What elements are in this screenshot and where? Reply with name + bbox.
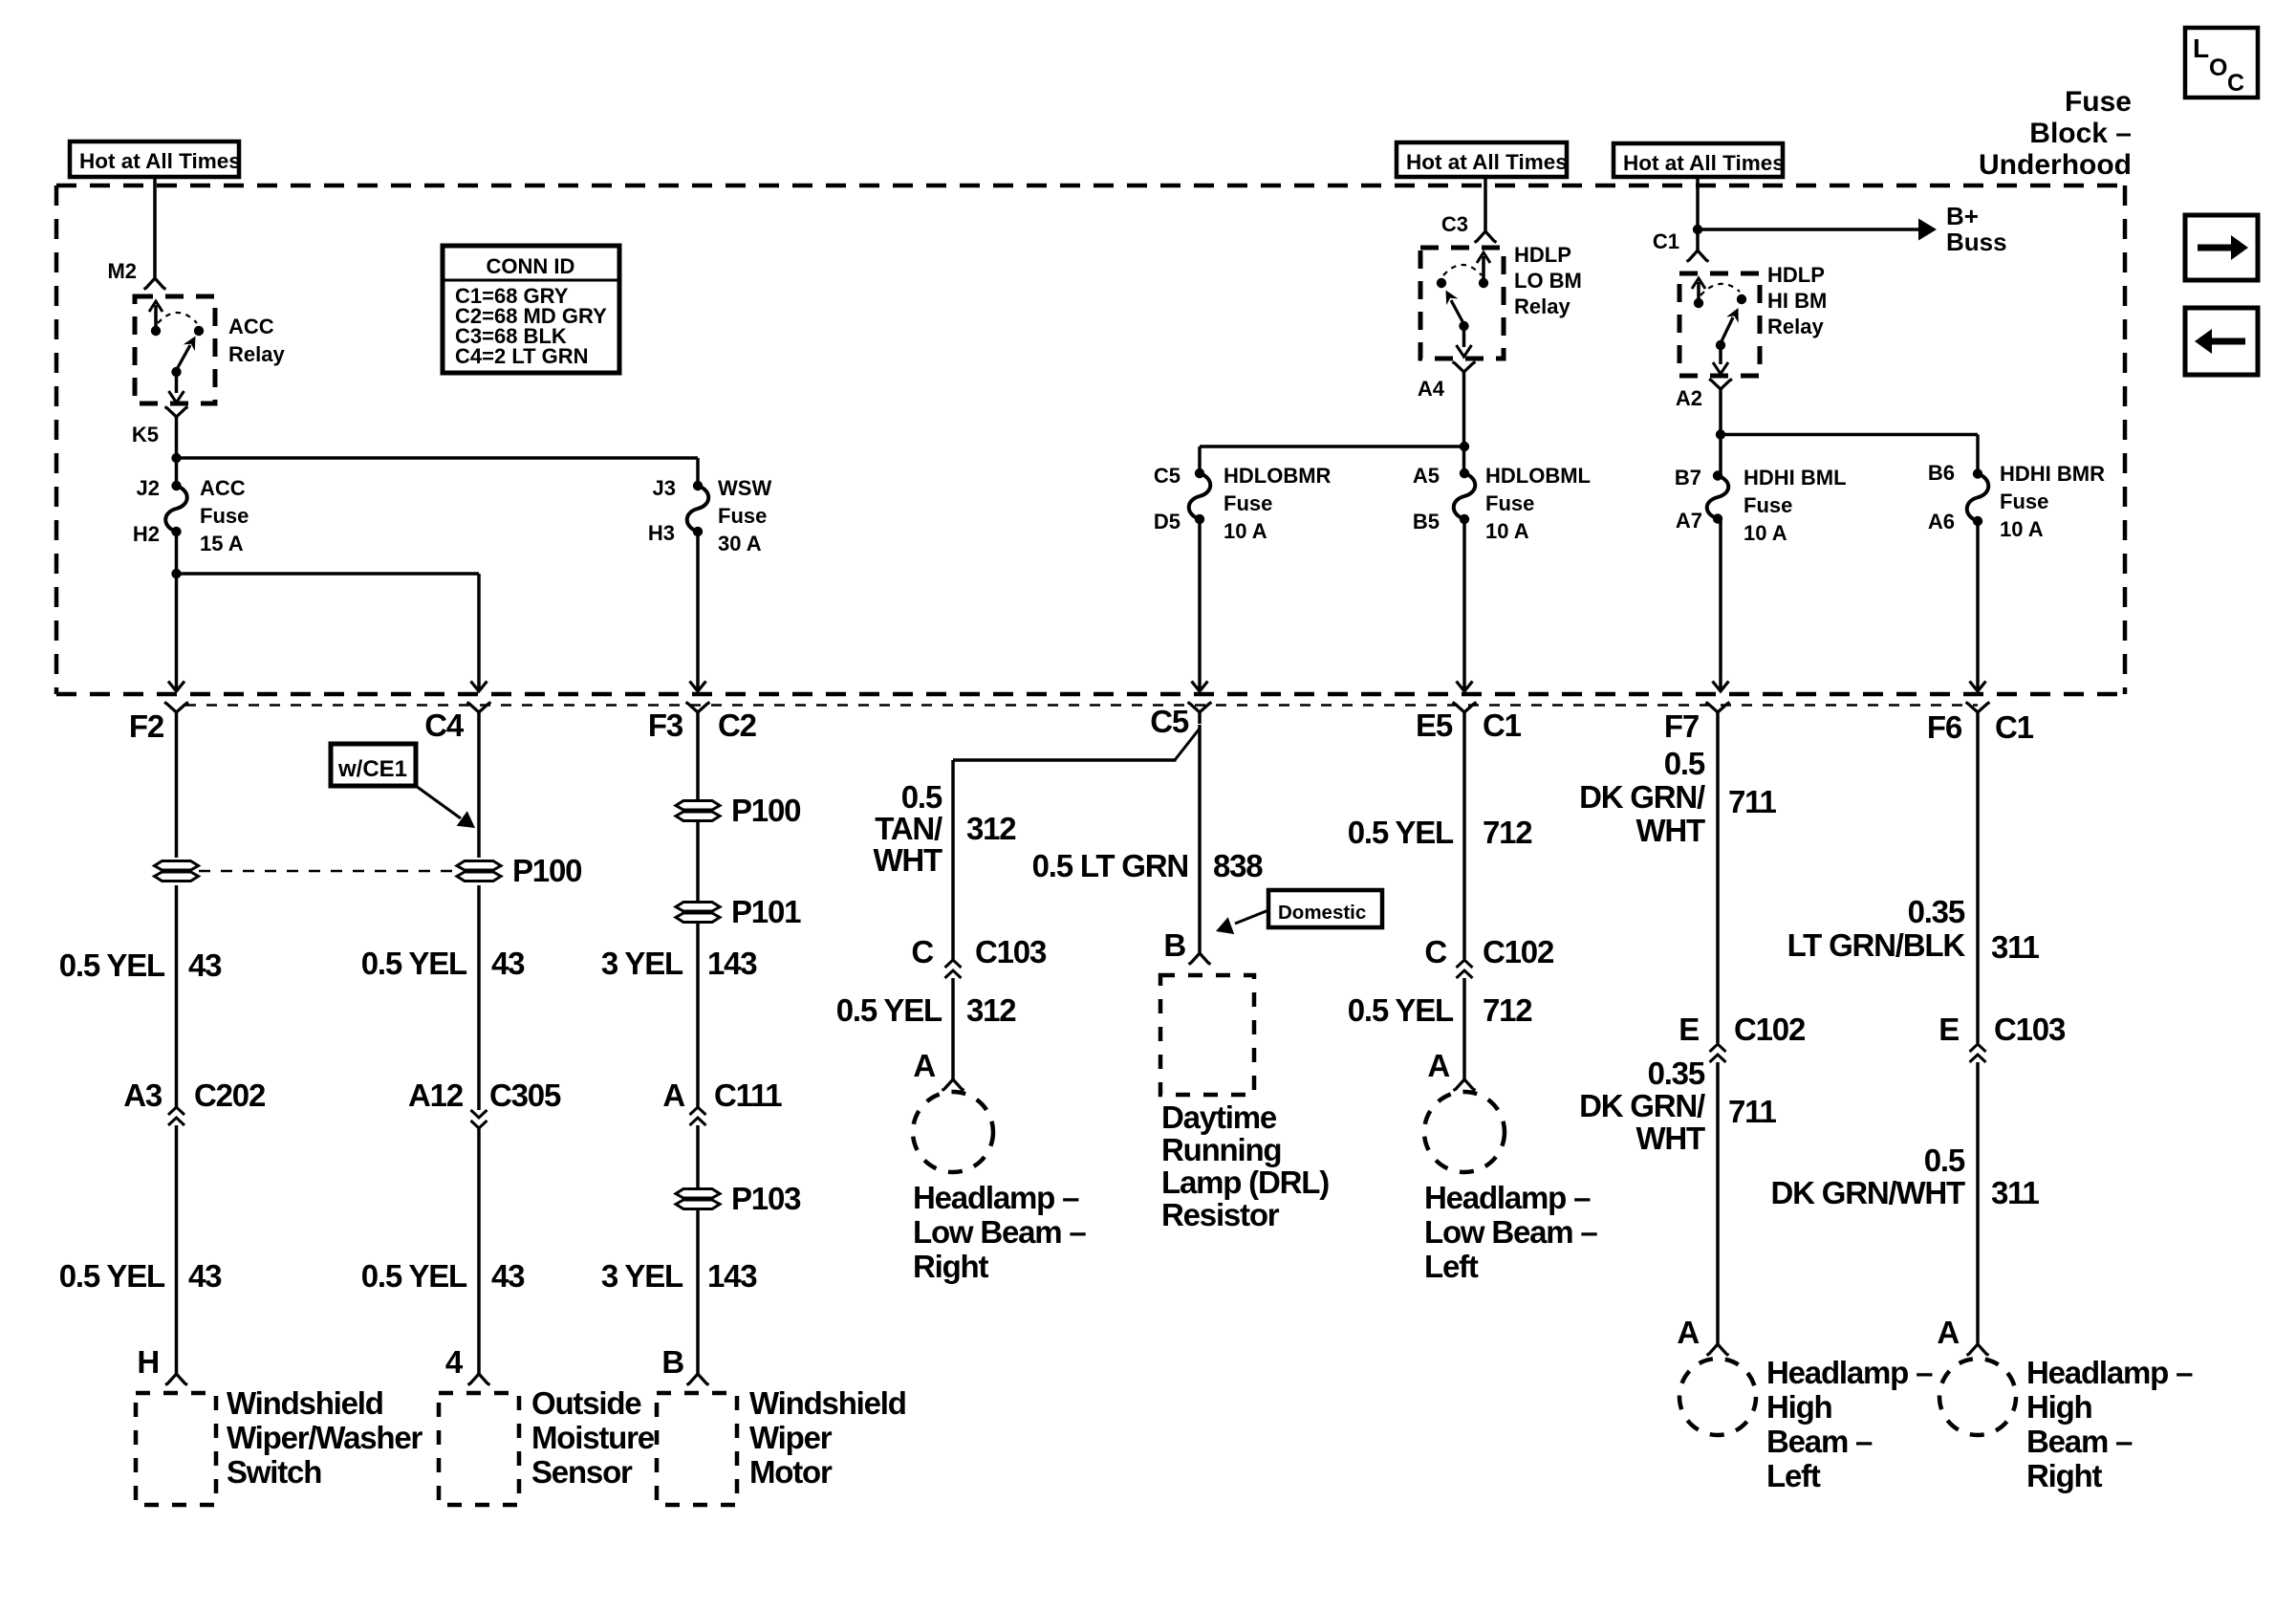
svg-text:High: High xyxy=(1766,1389,1832,1425)
svg-text:HDLOBML: HDLOBML xyxy=(1485,464,1591,488)
svg-text:DK GRN/: DK GRN/ xyxy=(1579,779,1705,815)
wire label 0.5 YEL 43 (lower F2) xyxy=(59,1258,222,1294)
svg-text:E5: E5 xyxy=(1416,708,1453,743)
svg-text:Windshield: Windshield xyxy=(227,1385,383,1421)
svg-text:B5: B5 xyxy=(1413,510,1440,533)
svg-text:Fuse: Fuse xyxy=(1485,491,1534,515)
svg-text:WHT: WHT xyxy=(873,842,942,878)
ACC fuse label xyxy=(200,476,249,555)
wire: C102 to headlamp low left xyxy=(1462,978,1466,1080)
svg-text:A5: A5 xyxy=(1413,464,1440,488)
svg-text:F6: F6 xyxy=(1927,709,1962,745)
lamp: Headlamp High Beam Right xyxy=(1939,1359,2016,1435)
connector chevron at 4 xyxy=(468,1374,490,1385)
inline connector P100 on F3 xyxy=(676,793,800,828)
connector chevron at A (low left) xyxy=(1454,1079,1476,1091)
HDHI BMR fuse label xyxy=(2000,462,2105,541)
wire: B5 to E5 exit xyxy=(1462,519,1466,689)
wire label 0.5 YEL 43 (upper C4) xyxy=(361,946,525,981)
pin A7 label xyxy=(1676,509,1702,533)
pin H3 label xyxy=(648,521,675,545)
svg-text:0.5 LT GRN: 0.5 LT GRN xyxy=(1032,848,1188,883)
wire label 0.5 TAN/WHT 312 xyxy=(873,779,1016,878)
callout arrow w/CE1 xyxy=(416,786,475,828)
svg-text:H3: H3 xyxy=(648,521,675,545)
svg-text:High: High xyxy=(2026,1389,2092,1425)
inline connector C111 carets xyxy=(690,1107,706,1125)
svg-text:HDHI BMR: HDHI BMR xyxy=(2000,462,2105,486)
connector chevron at B (DRL) xyxy=(1189,953,1211,965)
pin D5 label xyxy=(1154,510,1180,533)
HDLOBML fuse label xyxy=(1485,464,1591,543)
svg-text:Resistor: Resistor xyxy=(1161,1197,1280,1232)
svg-text:DK GRN/WHT: DK GRN/WHT xyxy=(1771,1175,1966,1210)
arrow into F2 exit xyxy=(168,682,184,692)
connector chevron at B xyxy=(687,1374,709,1385)
svg-text:Motor: Motor xyxy=(749,1454,833,1490)
svg-text:CONN ID: CONN ID xyxy=(487,254,575,278)
svg-text:J2: J2 xyxy=(137,476,160,500)
svg-text:B7: B7 xyxy=(1675,466,1701,490)
HDLP HI BM relay movable arm xyxy=(1716,308,1739,350)
svg-text:Wiper/Washer: Wiper/Washer xyxy=(227,1420,422,1455)
svg-text:43: 43 xyxy=(188,947,222,983)
inline connector C202 carets xyxy=(168,1107,184,1125)
connector F3 C2 xyxy=(648,703,757,744)
inline connector C103 carets xyxy=(945,960,962,978)
svg-text:C1: C1 xyxy=(1995,709,2034,745)
ACC relay dashed arc xyxy=(158,313,197,323)
pin C / connector C102 label xyxy=(1424,934,1554,969)
svg-text:312: 312 xyxy=(966,811,1016,846)
pin B6 label xyxy=(1928,461,1955,485)
svg-text:Fuse: Fuse xyxy=(1744,493,1792,517)
svg-text:711: 711 xyxy=(1728,1094,1776,1129)
svg-text:C305: C305 xyxy=(489,1078,561,1113)
svg-text:A12: A12 xyxy=(408,1078,464,1113)
arrow B+ Buss xyxy=(1918,219,1937,241)
svg-text:Block –: Block – xyxy=(2029,118,2132,149)
WSW fuse label xyxy=(718,476,771,555)
callout box w/CE1 xyxy=(331,744,416,786)
svg-text:C202: C202 xyxy=(194,1078,266,1113)
svg-text:Fuse: Fuse xyxy=(1224,491,1272,515)
arrow into F3 exit xyxy=(690,682,706,692)
svg-text:Beam –: Beam – xyxy=(1766,1424,1873,1459)
inline connector P101 xyxy=(676,894,801,929)
wire: H3 to F3 exit xyxy=(696,532,700,689)
wire: D5 to C5 exit xyxy=(1198,519,1202,689)
svg-text:A: A xyxy=(1677,1315,1699,1350)
CONN ID legend table xyxy=(443,246,619,373)
Headlamp High Beam Right label xyxy=(2026,1355,2193,1493)
svg-text:Sensor: Sensor xyxy=(531,1454,633,1490)
svg-text:C102: C102 xyxy=(1734,1012,1806,1047)
connector chevron at H xyxy=(165,1374,187,1385)
ACC relay movable arm xyxy=(171,337,195,378)
svg-text:LT GRN/BLK: LT GRN/BLK xyxy=(1787,927,1966,963)
svg-text:0.5 YEL: 0.5 YEL xyxy=(361,946,467,981)
svg-text:10 A: 10 A xyxy=(1744,521,1787,545)
Headlamp Low Beam Right label xyxy=(913,1180,1086,1284)
wire: P100 to P101 xyxy=(696,821,700,902)
connector chevron A4 xyxy=(1453,362,1476,381)
dashed tie P100 xyxy=(199,870,457,872)
svg-text:C: C xyxy=(1424,934,1446,969)
svg-text:Running: Running xyxy=(1161,1132,1281,1167)
ACC relay output arrow xyxy=(169,372,184,403)
svg-text:Low Beam –: Low Beam – xyxy=(1424,1214,1597,1250)
wire label 0.5 YEL 312 xyxy=(836,992,1017,1028)
pin B7 label xyxy=(1675,466,1701,490)
svg-text:HI BM: HI BM xyxy=(1767,289,1827,313)
svg-text:0.5 YEL: 0.5 YEL xyxy=(361,1258,467,1294)
svg-text:C: C xyxy=(2227,70,2244,97)
svg-text:Lamp (DRL): Lamp (DRL) xyxy=(1161,1165,1329,1200)
connector chevron at C1 xyxy=(1687,250,1709,262)
wire label 0.5 YEL 712 (lower) xyxy=(1348,992,1533,1028)
wire: F7 to C102 xyxy=(1716,725,1720,1043)
wire: C111 to P103 xyxy=(696,1125,700,1188)
arrow into F7 exit xyxy=(1713,682,1729,692)
svg-text:C111: C111 xyxy=(714,1078,782,1113)
svg-text:H: H xyxy=(137,1344,159,1380)
svg-text:C4=2 LT GRN: C4=2 LT GRN xyxy=(455,344,589,368)
connector E5 C1 xyxy=(1416,703,1522,744)
pin A label (low left) xyxy=(1427,1048,1449,1083)
pin B label (DRL) xyxy=(1163,927,1185,963)
wire: branch to C4 exit xyxy=(177,574,480,689)
connector F7 xyxy=(1664,703,1730,745)
svg-text:F3: F3 xyxy=(648,708,683,743)
wire label 0.5 DK GRN/WHT 711 (upper) xyxy=(1579,746,1776,848)
svg-text:Hot at All Times: Hot at All Times xyxy=(1623,151,1785,175)
junction dot below H2 xyxy=(171,569,181,578)
svg-text:143: 143 xyxy=(707,946,757,981)
underhood connector thin dashed line xyxy=(185,704,1978,706)
svg-text:LO BM: LO BM xyxy=(1514,269,1582,293)
lamp: Headlamp Low Beam Right xyxy=(913,1092,993,1172)
svg-text:A6: A6 xyxy=(1928,510,1955,533)
svg-text:Wiper: Wiper xyxy=(749,1420,833,1455)
svg-text:838: 838 xyxy=(1213,848,1263,883)
svg-text:Relay: Relay xyxy=(1767,315,1824,338)
svg-text:Left: Left xyxy=(1766,1458,1821,1493)
pin M2 label xyxy=(107,259,137,283)
svg-text:Buss: Buss xyxy=(1946,228,2007,256)
svg-text:O: O xyxy=(2209,54,2227,81)
svg-text:Headlamp –: Headlamp – xyxy=(1424,1180,1591,1215)
wire: C103 to headlamp low right xyxy=(951,978,955,1080)
relay K: HDLP HI BM Relay box xyxy=(1679,273,1760,376)
wire label 0.35 LT GRN/BLK 311 (upper) xyxy=(1787,894,2040,965)
pin H2 label xyxy=(133,522,160,546)
svg-text:30 A: 30 A xyxy=(718,532,762,555)
svg-text:B+: B+ xyxy=(1946,202,1979,230)
wire: F3 to P100 xyxy=(696,725,700,800)
connector F2 xyxy=(129,703,188,745)
power label box 2: Hot at All Times xyxy=(1397,142,1568,177)
svg-text:A: A xyxy=(662,1078,684,1113)
wire: C202 to switch xyxy=(175,1125,179,1375)
pin C3 label xyxy=(1441,212,1468,236)
svg-text:WHT: WHT xyxy=(1635,1121,1705,1156)
HDLP LO BM relay NO contact xyxy=(1437,278,1446,288)
svg-text:0.5: 0.5 xyxy=(1664,746,1705,781)
inline connector C102 carets xyxy=(1457,960,1473,978)
pin A label (high right) xyxy=(1937,1315,1959,1350)
wire: E5 to C102 xyxy=(1462,725,1466,959)
svg-text:E: E xyxy=(1939,1012,1959,1047)
power label box 1: Hot at All Times xyxy=(70,142,241,177)
wire: C102 to headlamp high left xyxy=(1716,1062,1720,1345)
svg-text:Moisture: Moisture xyxy=(531,1420,655,1455)
HDLP HI BM relay output arrow xyxy=(1713,345,1728,374)
wire: LO BM out to junction xyxy=(1462,381,1466,473)
svg-text:Right: Right xyxy=(2026,1458,2103,1493)
svg-text:Headlamp –: Headlamp – xyxy=(2026,1355,2193,1390)
svg-text:4: 4 xyxy=(445,1344,464,1380)
svg-text:M2: M2 xyxy=(107,259,137,283)
svg-text:w/CE1: w/CE1 xyxy=(337,756,407,782)
connector F6 C1 xyxy=(1927,703,2034,746)
wire label 0.5 YEL 712 (upper) xyxy=(1348,815,1533,850)
fuse: HDLOBML Fuse 10 A xyxy=(1454,468,1476,524)
inline connector P100 right half xyxy=(457,853,581,888)
pin K5 label xyxy=(132,423,159,446)
HDLP HI BM relay NO contact xyxy=(1737,294,1746,304)
svg-text:C5: C5 xyxy=(1150,704,1189,739)
svg-text:HDLP: HDLP xyxy=(1767,263,1825,287)
svg-text:10 A: 10 A xyxy=(1224,519,1267,543)
svg-text:712: 712 xyxy=(1483,815,1532,850)
pin C1 label xyxy=(1653,229,1679,253)
svg-text:0.5: 0.5 xyxy=(1924,1143,1965,1178)
pin J2 label xyxy=(137,476,160,500)
svg-text:K5: K5 xyxy=(132,423,159,446)
HDLP HI BM relay fixed contact + coil-up arrow xyxy=(1692,278,1705,308)
wire: branch diagonal to headlamp right xyxy=(953,729,1200,960)
LOC legend box xyxy=(2185,28,2258,98)
wire: P101 to C111 xyxy=(696,923,700,1107)
inline connector P100 left half xyxy=(155,861,199,882)
component: Outside Moisture Sensor box xyxy=(439,1393,519,1505)
svg-text:P101: P101 xyxy=(731,894,801,929)
junction dot A2 xyxy=(1716,429,1725,439)
wire: K5 junction to WSW fuse xyxy=(177,458,699,488)
wire label 0.5 LT GRN 838 xyxy=(1032,848,1264,883)
svg-text:F2: F2 xyxy=(129,708,164,744)
svg-text:Windshield: Windshield xyxy=(749,1385,906,1421)
svg-text:A: A xyxy=(1937,1315,1959,1350)
connector chevron at A (high left) xyxy=(1707,1344,1729,1356)
ACC relay label xyxy=(228,315,285,366)
wire: Hot at All Times 2 to HDLP LO BM relay xyxy=(1484,177,1487,232)
svg-text:P100: P100 xyxy=(512,853,581,888)
wire: relay out to K5 junction xyxy=(175,425,179,460)
Headlamp High Beam Left label xyxy=(1766,1355,1933,1493)
component: DRL Resistor box xyxy=(1160,975,1254,1095)
svg-text:10 A: 10 A xyxy=(2000,517,2044,541)
pin A4 label xyxy=(1418,377,1445,401)
svg-text:43: 43 xyxy=(491,946,525,981)
connector C4 xyxy=(424,703,490,744)
arrow into C4 exit xyxy=(471,682,487,692)
right-arrow legend box xyxy=(2185,215,2258,280)
svg-text:Relay: Relay xyxy=(228,342,285,366)
svg-text:Left: Left xyxy=(1424,1249,1479,1284)
svg-text:P103: P103 xyxy=(731,1181,801,1216)
label Fuse Block - Underhood xyxy=(1979,86,2132,181)
svg-text:Underhood: Underhood xyxy=(1979,149,2132,181)
svg-text:C5: C5 xyxy=(1154,464,1180,488)
wire: H2 to F2 exit xyxy=(175,532,179,689)
wire: C103 to headlamp high right xyxy=(1976,1062,1980,1345)
fuse: HDHI BMR Fuse 10 A xyxy=(1967,468,1989,526)
component: Windshield Wiper/Washer Switch box xyxy=(136,1393,216,1505)
inline connector P103 xyxy=(676,1181,801,1216)
svg-text:P100: P100 xyxy=(731,793,800,828)
svg-text:43: 43 xyxy=(491,1258,525,1294)
junction dot B+ buss xyxy=(1693,225,1702,234)
svg-text:0.35: 0.35 xyxy=(1908,894,1965,929)
HDLP HI BM relay label xyxy=(1767,263,1827,338)
svg-text:Fuse: Fuse xyxy=(200,504,249,528)
wire: P100 to C202 xyxy=(175,885,179,1107)
svg-text:D5: D5 xyxy=(1154,510,1180,533)
svg-text:0.35: 0.35 xyxy=(1648,1056,1705,1091)
relay K: ACC Relay box xyxy=(135,296,215,403)
svg-text:TAN/: TAN/ xyxy=(875,811,942,846)
svg-text:C: C xyxy=(911,934,933,969)
relay K: HDLP LO BM Relay box xyxy=(1420,248,1504,359)
HDHI BML fuse label xyxy=(1744,466,1847,545)
svg-text:L: L xyxy=(2193,33,2209,63)
pin H label xyxy=(137,1344,159,1380)
svg-text:43: 43 xyxy=(188,1258,222,1294)
svg-text:Switch: Switch xyxy=(227,1454,321,1490)
pin B5 label xyxy=(1413,510,1440,533)
svg-text:WHT: WHT xyxy=(1635,813,1705,848)
svg-text:Daytime: Daytime xyxy=(1161,1099,1277,1135)
Headlamp Low Beam Left label xyxy=(1424,1180,1597,1284)
pin E / connector C102 label (F7) xyxy=(1679,1012,1806,1047)
svg-text:A3: A3 xyxy=(123,1078,162,1113)
connector chevron at A (high right) xyxy=(1967,1344,1989,1356)
connector chevron K5 xyxy=(165,407,188,426)
junction dot A4-A5 xyxy=(1460,442,1469,451)
wire: Hot at All Times 3 to HDLP HI BM relay xyxy=(1696,177,1700,250)
svg-text:10 A: 10 A xyxy=(1485,519,1529,543)
svg-text:143: 143 xyxy=(707,1258,757,1294)
pin A3 / connector C202 label xyxy=(123,1078,266,1113)
HDLP LO BM relay movable arm xyxy=(1446,291,1469,332)
svg-text:A4: A4 xyxy=(1418,377,1445,401)
svg-text:F7: F7 xyxy=(1664,708,1699,744)
svg-text:15 A: 15 A xyxy=(200,532,244,555)
fuse: ACC Fuse 15 A xyxy=(165,481,187,536)
inline connector C102 carets (F7) xyxy=(1710,1044,1726,1062)
lamp: Headlamp High Beam Left xyxy=(1679,1359,1756,1435)
pin A6 label xyxy=(1928,510,1955,533)
svg-text:Fuse: Fuse xyxy=(2065,86,2132,118)
wire: F2 to P100 xyxy=(175,725,179,858)
svg-text:A: A xyxy=(1427,1048,1449,1083)
wire label 3 YEL 143 (lower) xyxy=(601,1258,757,1294)
svg-text:C102: C102 xyxy=(1483,934,1554,969)
pin A12 / connector C305 label xyxy=(408,1078,561,1113)
svg-text:712: 712 xyxy=(1483,992,1532,1028)
connector chevron at C3 xyxy=(1475,231,1497,243)
svg-text:A: A xyxy=(913,1048,935,1083)
HDLOBMR fuse label xyxy=(1224,464,1332,543)
fuse: WSW Fuse 30 A xyxy=(687,481,709,536)
component: Windshield Wiper Motor box xyxy=(657,1393,737,1505)
connector chevron A2 xyxy=(1709,380,1732,399)
wire: HI BM out to junction xyxy=(1719,398,1722,475)
svg-text:0.5 YEL: 0.5 YEL xyxy=(1348,815,1454,850)
pin C5 label xyxy=(1154,464,1180,488)
HDLP LO BM relay dashed arc xyxy=(1443,265,1482,275)
HDLP LO BM relay fixed contact + coil-up arrow xyxy=(1477,252,1490,288)
wire: C305 to sensor xyxy=(477,1128,481,1374)
connector chevron at A (low right) xyxy=(942,1079,964,1091)
wire label 0.5 DK GRN/WHT 311 (lower) xyxy=(1771,1143,2040,1210)
svg-text:H2: H2 xyxy=(133,522,160,546)
wire: P100 to C305 xyxy=(477,885,481,1110)
wire: A7 to F7 exit xyxy=(1719,519,1722,690)
svg-text:C1: C1 xyxy=(1483,708,1522,743)
Windshield Wiper Motor label xyxy=(749,1385,906,1490)
pin A5 label xyxy=(1413,464,1440,488)
pin C / connector C103 label xyxy=(911,934,1047,969)
svg-text:Headlamp –: Headlamp – xyxy=(913,1180,1079,1215)
wire: F6 to C103 xyxy=(1976,725,1980,1043)
svg-text:0.5: 0.5 xyxy=(901,779,942,815)
connector chevron at M2 xyxy=(144,278,166,290)
wire: Hot at All Times 1 to ACC relay xyxy=(153,177,157,278)
svg-text:Hot at All Times: Hot at All Times xyxy=(79,149,241,173)
callout box Domestic xyxy=(1268,890,1382,927)
svg-text:312: 312 xyxy=(966,992,1016,1028)
power label box 3: Hot at All Times xyxy=(1614,143,1785,177)
svg-text:E: E xyxy=(1679,1012,1699,1047)
svg-text:0.5 YEL: 0.5 YEL xyxy=(59,947,165,983)
svg-text:HDLP: HDLP xyxy=(1514,243,1571,267)
fuse block - underhood dashed border xyxy=(56,185,2125,694)
svg-text:Low Beam –: Low Beam – xyxy=(913,1214,1086,1250)
left-arrow legend box xyxy=(2185,308,2258,375)
pin B label xyxy=(661,1344,683,1380)
HDLP LO BM relay label xyxy=(1514,243,1582,318)
svg-text:Beam –: Beam – xyxy=(2026,1424,2133,1459)
svg-text:B6: B6 xyxy=(1928,461,1955,485)
fuse: HDHI BML Fuse 10 A xyxy=(1707,470,1729,523)
svg-text:Domestic: Domestic xyxy=(1278,902,1366,924)
arrow into C5 exit xyxy=(1192,682,1208,692)
Windshield Wiper/Washer Switch label xyxy=(227,1385,422,1490)
svg-text:Hot at All Times: Hot at All Times xyxy=(1406,150,1568,174)
svg-text:A2: A2 xyxy=(1676,386,1702,410)
svg-text:ACC: ACC xyxy=(200,476,246,500)
ACC relay fixed contact + coil-up arrow xyxy=(149,301,162,336)
svg-text:Relay: Relay xyxy=(1514,294,1570,318)
svg-text:3 YEL: 3 YEL xyxy=(601,1258,683,1294)
svg-text:A7: A7 xyxy=(1676,509,1702,533)
svg-text:Right: Right xyxy=(913,1249,989,1284)
pin A label (high left) xyxy=(1677,1315,1699,1350)
svg-text:Headlamp –: Headlamp – xyxy=(1766,1355,1933,1390)
